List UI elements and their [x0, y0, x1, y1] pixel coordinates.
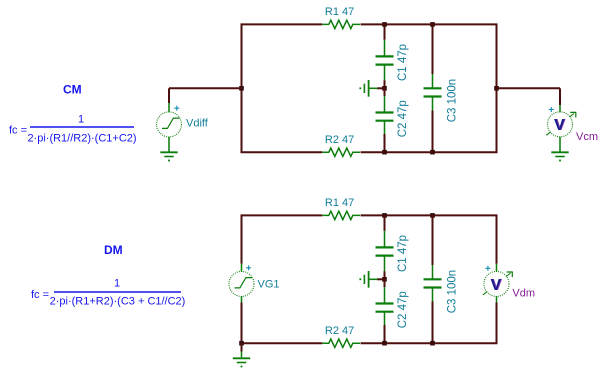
wire C1 to node [384, 271, 386, 279]
resistor R1 [322, 6, 360, 28]
junction C2 bottom [382, 150, 387, 155]
wire meter stem [559, 88, 561, 105]
svg-text:C1 47p: C1 47p [397, 235, 409, 272]
junction C2 bottom [382, 341, 387, 346]
svg-text:1: 1 [78, 114, 84, 126]
wire C2 branch bottom [384, 134, 386, 152]
wire top rail right [361, 214, 498, 216]
svg-text:fc =: fc = [31, 289, 49, 301]
lead C3 top [432, 74, 434, 88]
wire right vertical upper [496, 215, 498, 263]
wire left vertical upper [241, 215, 243, 263]
lead C3 bottom [432, 288, 434, 302]
junction ground node [239, 341, 244, 346]
wire C3 branch top [432, 24, 434, 74]
svg-text:C3 100n: C3 100n [446, 79, 458, 122]
svg-text:R1 47: R1 47 [325, 197, 354, 209]
lead meter bottom [559, 137, 561, 152]
capacitor C1 [376, 44, 409, 81]
wire left vertical [241, 24, 243, 152]
label CM [63, 83, 82, 97]
lead C2 bottom [384, 121, 386, 134]
plus sign Vcm [549, 107, 554, 112]
plus sign Vdm [485, 266, 490, 271]
capacitor C2 [376, 291, 409, 328]
ground below Vcm [551, 152, 568, 161]
junction mid node [382, 277, 387, 282]
lead ground stem [241, 352, 243, 358]
lead mid ground [369, 87, 378, 89]
lead C1 top [384, 231, 386, 248]
formula DM [31, 278, 185, 308]
svg-text:VG1: VG1 [258, 279, 280, 291]
wire to source [169, 87, 242, 89]
wire right vertical lower [496, 303, 498, 344]
wire ground stem [241, 343, 243, 351]
voltage source Vdiff [157, 112, 209, 137]
svg-text:2·pi·(R1//R2)·(C1+C2): 2·pi·(R1//R2)·(C1+C2) [27, 133, 136, 145]
svg-text:Vdiff: Vdiff [186, 118, 209, 130]
wire node to ground [377, 278, 385, 280]
junction C3 bottom [430, 341, 435, 346]
resistor R1 [322, 197, 360, 219]
lead Vdm top [496, 264, 498, 272]
lead Vdm bottom [496, 296, 498, 302]
svg-text:C2 47p: C2 47p [397, 100, 409, 137]
lead VG1 bottom [241, 296, 243, 302]
wire node to ground [377, 87, 385, 89]
wire C1 branch top [384, 24, 386, 39]
wire C1 to node [384, 80, 386, 88]
label DM [104, 243, 123, 257]
wire C1 branch top [384, 215, 386, 230]
svg-text:C3 100n: C3 100n [446, 270, 458, 313]
junction C1 top [382, 213, 387, 218]
wire C2 branch bottom [384, 325, 386, 343]
lead C2 top [384, 96, 386, 112]
wire C3 branch top [432, 215, 434, 265]
wire source stem [168, 88, 170, 103]
junction mid node [382, 86, 387, 91]
svg-text:V: V [490, 277, 501, 294]
lead source bottom [168, 137, 170, 152]
voltage source VG1 [229, 271, 280, 296]
lead mid ground [369, 278, 378, 280]
formula CM [9, 114, 137, 145]
plus sign VG1 [246, 265, 251, 270]
wire bottom rail right [361, 342, 498, 344]
svg-text:R2 47: R2 47 [325, 134, 354, 146]
junction C1 top [382, 22, 387, 27]
junction C3 top [430, 22, 435, 27]
lead VG1 top [241, 264, 243, 272]
wire bottom rail right [361, 151, 498, 153]
svg-text:DM: DM [104, 243, 123, 257]
svg-text:V: V [554, 117, 565, 134]
junction source tap [239, 86, 244, 91]
voltmeter Vdm [483, 271, 535, 299]
svg-text:R1 47: R1 47 [325, 6, 354, 18]
lead C2 bottom [384, 312, 386, 325]
junction C3 bottom [430, 150, 435, 155]
svg-text:C1 47p: C1 47p [397, 44, 409, 81]
lead C3 top [432, 265, 434, 279]
capacitor C2 [376, 100, 409, 137]
voltmeter Vcm [546, 112, 598, 143]
wire right vertical [496, 24, 498, 152]
svg-text:R2 47: R2 47 [325, 325, 354, 337]
lead C2 top [384, 287, 386, 303]
svg-text:CM: CM [63, 83, 82, 97]
wire C3 branch bottom [432, 302, 434, 344]
ground below Vdiff [160, 152, 177, 161]
svg-text:Vdm: Vdm [512, 288, 535, 300]
lead meter top [559, 105, 561, 112]
wire left vertical lower [241, 303, 243, 344]
svg-text:C2 47p: C2 47p [397, 291, 409, 328]
junction C3 top [430, 213, 435, 218]
wire bottom rail left [241, 151, 323, 153]
capacitor C3 [424, 79, 459, 122]
svg-text:fc =: fc = [9, 125, 27, 137]
wire top rail left [241, 214, 323, 216]
lead C1 top [384, 40, 386, 57]
capacitor C3 [424, 270, 459, 313]
lead C1 bottom [384, 256, 386, 272]
junction meter tap [494, 86, 499, 91]
capacitor C1 [376, 235, 409, 272]
plus sign Vdiff [174, 106, 179, 111]
ground below VG1 [233, 358, 250, 367]
wire to meter [497, 87, 561, 89]
resistor R2 [322, 325, 360, 347]
lead C1 bottom [384, 65, 386, 81]
wire bottom rail left [241, 342, 323, 344]
wire top rail right [361, 23, 498, 25]
wire node to C2 [384, 279, 386, 287]
svg-text:2·pi·(R1+R2)·(C3 + C1//C2): 2·pi·(R1+R2)·(C3 + C1//C2) [50, 296, 186, 308]
ground at mid node [359, 271, 368, 288]
wire C3 branch bottom [432, 111, 434, 153]
lead source top [168, 103, 170, 112]
ground at mid node [359, 80, 368, 97]
svg-text:1: 1 [114, 278, 120, 290]
svg-text:Vcm: Vcm [576, 131, 598, 143]
resistor R2 [322, 134, 360, 156]
lead C3 bottom [432, 97, 434, 111]
wire top rail left [241, 23, 323, 25]
wire node to C2 [384, 88, 386, 96]
